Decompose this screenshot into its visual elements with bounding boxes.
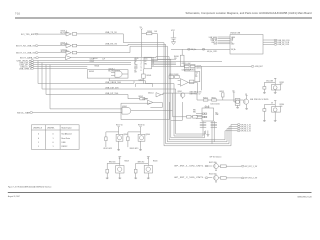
transistor Q0509 — [214, 162, 219, 170]
node BOOT_TX row3 label — [16, 52, 38, 55]
svg-text:Boot Data: Boot Data — [62, 137, 71, 140]
svg-text:L0501 BLM21: L0501 BLM21 — [185, 69, 195, 71]
wire row4 input — [39, 57, 66, 59]
wire U0502 pin out5 — [152, 65, 185, 67]
node SW_B+ label — [17, 112, 33, 115]
wire U0504 bottom stubs col1 — [200, 121, 206, 131]
svg-text:USB_DP_5V0: USB_DP_5V0 — [105, 93, 119, 95]
node USB_GND bus label r9 — [19, 68, 34, 71]
wire bus r7 — [34, 64, 131, 66]
IC U0502 USB transceiver — [134, 57, 151, 73]
wire loop P3 — [167, 46, 237, 142]
svg-text:1: 1 — [53, 138, 54, 140]
resistor R0511 — [212, 97, 244, 101]
svg-text:Q0505: Q0505 — [123, 134, 128, 136]
svg-text:R0504: R0504 — [95, 65, 100, 67]
svg-text:U0501: U0501 — [122, 106, 127, 108]
wire U0502 pin out1 — [152, 58, 177, 60]
node BOOT_RX row2 label — [16, 45, 38, 48]
buffer U0501-B — [60, 42, 76, 47]
wire bus r6 — [34, 62, 131, 64]
wire mid line L1 USB_VBUS_5V0 — [38, 81, 203, 136]
wire row2 input — [38, 45, 66, 47]
wire to right drop — [195, 66, 251, 90]
svg-text:R0519: R0519 — [125, 161, 130, 163]
svg-text:U0503: U0503 — [89, 71, 94, 73]
wire row1 output — [77, 34, 164, 43]
svg-text:RED LED: RED LED — [109, 161, 116, 163]
svg-text:GP_INT_5_5V: GP_INT_5_5V — [241, 129, 252, 131]
U0502 right pin numbers — [152, 58, 154, 67]
svg-text:GP_INT_3_5V: GP_INT_3_5V — [241, 124, 252, 126]
svg-text:7-16: 7-16 — [15, 12, 20, 15]
node GP_INT_6 — [237, 130, 252, 133]
crystal Y0501 — [184, 65, 201, 71]
svg-text:CN0501 USB: CN0501 USB — [230, 32, 241, 34]
svg-text:0: 0 — [53, 142, 54, 144]
svg-text:WDI/O GPIO: WDI/O GPIO — [103, 148, 113, 150]
transistor circuit QA top right — [263, 78, 284, 93]
wire bracket — [135, 84, 152, 87]
resistor network R0509 inline — [185, 65, 196, 71]
svg-text:SW_B+_RAW: SW_B+_RAW — [17, 112, 30, 115]
wire U0504 bottom stubs col2 — [211, 121, 217, 144]
svg-text:DP: DP — [231, 40, 233, 42]
svg-text:C0515 C0516: C0515 C0516 — [210, 104, 219, 106]
svg-text:VBUS: VBUS — [231, 37, 235, 39]
wire U0502 pin out4 — [152, 64, 177, 66]
svg-text:Not Allowed: Not Allowed — [62, 133, 72, 136]
transistor circuit Q0508 grid BR — [134, 157, 157, 179]
transistor circuit Q0506 grid TR — [127, 124, 150, 150]
node GP_INT_3 — [237, 124, 252, 127]
svg-text:5V0_USB: 5V0_USB — [266, 80, 273, 82]
and gate U0501 — [122, 106, 131, 114]
svg-text:C0513: C0513 — [139, 79, 144, 81]
IC U0504 level shifter — [202, 104, 220, 121]
svg-text:5: 5 — [141, 65, 142, 67]
svg-text:GP_INT_1_3V: GP_INT_1_3V — [245, 166, 258, 168]
resistor R0510 — [203, 97, 211, 101]
node USB_ID pin4 — [211, 42, 233, 44]
resistor R0522 — [218, 165, 241, 168]
svg-text:0: 0 — [38, 134, 39, 136]
wire U0502 pin out2 — [152, 60, 223, 62]
svg-text:13: 13 — [195, 74, 197, 76]
node GP_INT_5 — [237, 128, 252, 131]
transistor circuit QC lower right — [263, 101, 284, 122]
group box B corner — [171, 102, 183, 120]
svg-text:C0507: C0507 — [90, 61, 95, 63]
svg-text:GP I/O Direct: GP I/O Direct — [210, 155, 222, 158]
wire SW_B+ feed — [171, 48, 230, 50]
svg-text:WDI/O GPIO: WDI/O GPIO — [130, 148, 140, 150]
svg-text:GP_INT_4_5V: GP_INT_4_5V — [241, 126, 252, 128]
power VCC cap node — [171, 30, 176, 42]
wire mid line L2 USB_DM — [42, 89, 206, 134]
svg-text:GP_INT_1_5V0_CNTL: GP_INT_1_5V0_CNTL — [174, 165, 204, 167]
svg-text:Schematics, Component Location: Schematics, Component Location Diagrams,… — [186, 11, 313, 15]
jumper JU0501 — [187, 116, 191, 119]
ground Q0502 — [236, 105, 239, 108]
svg-text:USB_SHELL: USB_SHELL — [19, 68, 32, 70]
svg-text:USB_VBUS: USB_VBUS — [209, 37, 217, 39]
wire conn out2 — [263, 41, 290, 44]
node USB_DP bus label r7 — [19, 64, 33, 67]
wire row1 input — [38, 33, 66, 35]
svg-text:2: 2 — [141, 60, 142, 62]
svg-text:GP_INT_6_5V: GP_INT_6_5V — [241, 131, 252, 133]
svg-text:R0505: R0505 — [147, 75, 152, 77]
svg-text:1: 1 — [38, 146, 39, 148]
power 5V node Q0502 — [232, 91, 235, 102]
node SW_B+ oval — [187, 49, 196, 52]
wire U0501 output — [131, 111, 193, 117]
svg-text:6881096C74-B: 6881096C74-B — [298, 197, 313, 199]
svg-text:U05: U05 — [145, 58, 148, 60]
node USB_VBUS_5V0 text — [190, 91, 202, 95]
svg-text:1: 1 — [38, 142, 39, 144]
wire mid line L3 USB_DP — [46, 95, 140, 99]
svg-text:DNP: DNP — [215, 114, 218, 116]
resistor R0506 — [174, 49, 184, 66]
svg-text:USB_EN_N_5V: USB_EN_N_5V — [190, 93, 202, 95]
svg-text:U0504-2: U0504-2 — [142, 99, 148, 101]
oscillator Y0501 cluster — [169, 74, 179, 79]
wire op-amp out — [188, 82, 197, 93]
wire loop P2 — [166, 44, 238, 143]
svg-text:USB_RX_5V: USB_RX_5V — [105, 43, 118, 45]
svg-text:R0520: R0520 — [153, 161, 158, 163]
wire row2 output — [77, 44, 166, 45]
wire U0504 left pins — [193, 110, 202, 119]
svg-text:USB_VBUS_5V0: USB_VBUS_5V0 — [105, 82, 122, 84]
node GP_INT_2_3V — [241, 177, 258, 180]
svg-text:U0503-1: U0503-1 — [108, 69, 114, 71]
svg-text:Mode/Option: Mode/Option — [62, 127, 72, 130]
node USB_VBUS bus label r5 — [17, 60, 34, 63]
svg-text:VP: VP — [134, 70, 136, 72]
op-amp U0505 — [178, 79, 194, 87]
svg-text:R0506: R0506 — [174, 56, 179, 58]
node GP_INT_2 input — [174, 177, 212, 179]
resistor R0524 — [218, 177, 241, 180]
svg-text:6: 6 — [141, 66, 142, 68]
svg-text:C0510: C0510 — [196, 68, 201, 70]
wire loop P5 — [171, 60, 205, 138]
transistor Q0502 — [235, 99, 240, 106]
svg-text:8: 8 — [141, 70, 142, 72]
svg-text:SW_B+: SW_B+ — [231, 49, 236, 51]
svg-text:USB_PWR_EN_5V R0515: USB_PWR_EN_5V R0515 — [250, 99, 269, 101]
wire U0502 pin out3 — [152, 62, 177, 64]
svg-text:GP_INT_2_5V0_CNTL: GP_INT_2_5V0_CNTL — [174, 177, 204, 179]
wire U0503 drop — [109, 78, 134, 81]
svg-text:1: 1 — [141, 58, 142, 60]
truth table — [32, 125, 80, 150]
wire bus r5 — [34, 60, 171, 61]
svg-text:5V: 5V — [147, 158, 149, 160]
svg-text:0: 0 — [53, 134, 54, 136]
svg-text:USB_DM_5V0: USB_DM_5V0 — [105, 88, 119, 90]
buffer U0504-2 — [142, 99, 153, 105]
node SCI_TXD row1 label — [21, 33, 38, 36]
svg-text:USB_ID: USB_ID — [211, 42, 217, 44]
transistor circuit Q0505 grid TL — [103, 124, 128, 150]
svg-text:GP_INT_2_3V: GP_INT_2_3V — [245, 178, 258, 180]
svg-text:C0509: C0509 — [196, 66, 201, 68]
wire tap V1 — [37, 61, 39, 84]
svg-text:02: 02 — [145, 61, 147, 63]
node oval2 — [202, 49, 205, 51]
svg-text:R0507: R0507 — [139, 96, 144, 98]
svg-text:VBUS: VBUS — [134, 58, 138, 60]
svg-text:EN1: EN1 — [193, 110, 196, 112]
node USB_VBUS pin1 — [209, 37, 235, 39]
svg-text:U0504-1: U0504-1 — [148, 93, 154, 95]
node GP_INT_1 input — [174, 165, 212, 167]
resistor R0513 — [220, 91, 225, 100]
header rule — [15, 17, 312, 19]
power 5V pull-up node — [140, 27, 143, 57]
svg-text:August 24, 2007: August 24, 2007 — [8, 195, 20, 198]
wire SW_B+ — [33, 65, 122, 113]
svg-text:BOOT_RX_USB_5V: BOOT_RX_USB_5V — [16, 46, 36, 48]
wire row3 input — [38, 52, 66, 54]
svg-text:R0516: R0516 — [280, 104, 285, 106]
wire tap V3 — [45, 65, 47, 95]
wire row3 output — [77, 46, 168, 52]
buffer U0504-1 — [148, 93, 161, 97]
svg-text:BOOT_DATA_5V: BOOT_DATA_5V — [20, 57, 37, 60]
transistor Q0501 — [177, 91, 185, 99]
svg-text:R0512: R0512 — [280, 82, 285, 84]
svg-text:Q0501: Q0501 — [177, 91, 182, 93]
svg-text:Figure 7-19. HUD4022B/HUD4024A: Figure 7-19. HUD4022B/HUD4024A USB/RS232… — [8, 186, 52, 189]
svg-text:0: 0 — [38, 138, 39, 140]
svg-text:EN2: EN2 — [193, 111, 196, 113]
svg-text:USB_DM: USB_DM — [211, 39, 218, 41]
svg-text:SW_B+: SW_B+ — [191, 49, 197, 51]
svg-text:BOOT_TX_USB_5V: BOOT_TX_USB_5V — [16, 53, 35, 55]
svg-text:R0503: R0503 — [147, 31, 152, 33]
resistor R0505 below U0502 — [142, 69, 152, 84]
node GP_INT_1_3V — [241, 165, 258, 168]
wire loop P4 — [169, 57, 237, 140]
node BOOT_CTRL row4 label — [20, 57, 39, 60]
transistor circuit Q0507 grid BL — [106, 157, 129, 179]
transistor Q0510 — [214, 174, 219, 182]
svg-text:NU: NU — [195, 76, 197, 78]
svg-text:USB/SEL: USB/SEL — [47, 128, 55, 130]
buffer U0502-B — [66, 56, 72, 60]
node USB_ID bus label r8 — [20, 66, 34, 69]
svg-text:USB_DET: USB_DET — [255, 66, 263, 68]
buffer U0501-A — [60, 31, 76, 36]
node BUS_DET — [251, 66, 263, 69]
svg-text:SCI_TXD_EXP: SCI_TXD_EXP — [21, 34, 36, 36]
buffer U0502-A — [61, 49, 77, 54]
wire gate1 out — [161, 93, 203, 100]
node GND pin5 — [214, 44, 236, 46]
wire cross drop — [171, 93, 173, 111]
svg-text:USB_TX_5V: USB_TX_5V — [105, 32, 117, 34]
wire loop P1 — [164, 43, 237, 146]
group box U0503 — [87, 70, 128, 78]
svg-text:5V: 5V — [119, 158, 121, 160]
resistor R0503 — [142, 31, 158, 60]
wire bus r8 — [34, 66, 88, 68]
transistor Q0503 circle — [243, 94, 248, 109]
svg-text:USB_VBUS_5V0: USB_VBUS_5V0 — [190, 91, 202, 93]
svg-text:SW_B+_CNTL: SW_B+_CNTL — [207, 51, 217, 53]
svg-text:7: 7 — [141, 68, 142, 70]
jumper JU0502 — [193, 116, 202, 119]
svg-text:Q0506: Q0506 — [145, 134, 150, 136]
svg-text:USB_DP: USB_DP — [211, 40, 217, 42]
group box A outline — [121, 102, 170, 120]
svg-text:1: 1 — [53, 146, 54, 148]
svg-text:RS232: RS232 — [62, 146, 68, 148]
wire conn out3 — [263, 44, 290, 47]
svg-text:USB_VB_CON: USB_VB_CON — [278, 44, 290, 46]
node USB_DP pin3 — [211, 40, 233, 42]
svg-text:DP: DP — [134, 61, 136, 63]
and gate U0503-A — [108, 69, 128, 78]
resistor R0507 inline — [134, 96, 148, 100]
connector J0501 — [230, 32, 263, 54]
svg-text:C0506: C0506 — [90, 58, 95, 60]
svg-text:USB/EN_N: USB/EN_N — [33, 128, 43, 130]
wire row4 output — [71, 57, 169, 58]
wire conn out1 — [263, 39, 290, 42]
wire tap V2 — [41, 63, 43, 90]
svg-text:GRN LED: GRN LED — [138, 161, 146, 163]
svg-text:3: 3 — [141, 61, 142, 63]
node USB_DM pin2 — [211, 39, 234, 41]
node USB_DM bus label r6 — [19, 62, 34, 65]
svg-text:270: 270 — [174, 58, 177, 60]
ground triangle — [171, 42, 175, 45]
wire bus r9 — [34, 68, 88, 70]
ground U0504 — [206, 131, 209, 137]
node GP_INT_4 — [237, 126, 252, 129]
box DNP C0514 — [195, 72, 200, 82]
footer rule — [8, 192, 312, 194]
svg-text:C05: C05 — [195, 73, 198, 75]
svg-text:4: 4 — [141, 63, 142, 65]
wire gate2 out — [150, 102, 162, 107]
svg-text:1uF: 1uF — [102, 58, 105, 60]
